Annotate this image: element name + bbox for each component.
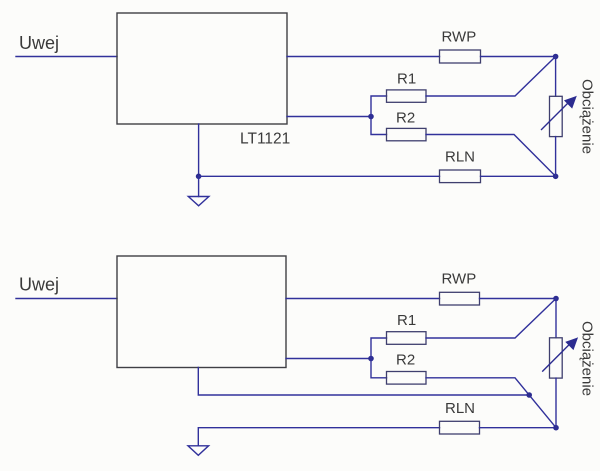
junction node top 2: [553, 296, 559, 302]
junction node R1/R2 2: [368, 356, 374, 362]
IC U1 regulator box: [117, 13, 287, 124]
svg-text:R2: R2: [396, 351, 415, 368]
wire ground rail 2: [198, 428, 439, 446]
resistor R1: [387, 90, 427, 102]
junction node bottom 2: [553, 425, 559, 431]
junction node ground rail: [196, 174, 202, 180]
wire load to bottom node: [555, 137, 557, 177]
wire R1 to top node: [426, 57, 556, 97]
wire U2 sense pin to R1/R2 node 2: [286, 358, 371, 360]
resistor load (Obciazenie): [550, 96, 563, 136]
svg-text:RWP: RWP: [442, 271, 477, 288]
wire U1 ground pin down: [198, 124, 200, 176]
svg-text:Uwej: Uwej: [19, 33, 59, 53]
resistor RLN2: [440, 421, 480, 434]
resistor RLN: [440, 170, 481, 183]
ground: [188, 197, 209, 206]
wire input to regulator: [16, 56, 117, 58]
svg-text:R1: R1: [397, 312, 416, 329]
wire R1/R2 vertical tie 2: [371, 338, 387, 378]
wire R1/R2 vertical tie: [371, 96, 387, 135]
junction node on diagonal 2: [526, 392, 532, 398]
wire load 2 to bottom node 2: [555, 378, 557, 428]
svg-text:RWP: RWP: [442, 29, 477, 46]
arrow variable-load 2: [543, 339, 577, 371]
svg-text:RLN: RLN: [445, 400, 475, 417]
resistor load 2 (Obciazenie): [550, 338, 563, 378]
resistor R2: [387, 128, 427, 140]
wire RLN2 to bottom node 2: [480, 427, 557, 429]
wire U1 output to RWP: [287, 56, 440, 58]
svg-text:R2: R2: [396, 109, 415, 126]
wire R1-2 to top node 2: [426, 299, 556, 339]
svg-text:Obciążenie: Obciążenie: [578, 79, 595, 154]
wire U1 sense pin to R1/R2 node: [287, 116, 371, 118]
wire input to regulator 2: [16, 298, 117, 300]
resistor R2-2: [387, 372, 427, 385]
wire ground rail to RLN: [199, 175, 440, 177]
wire RLN to bottom node: [481, 175, 556, 177]
IC U2 regulator box: [117, 256, 286, 368]
wire R2-2 diagonal to bottom node 2: [426, 378, 556, 428]
svg-text:RLN: RLN: [445, 149, 475, 166]
junction node R1/R2: [368, 114, 374, 120]
junction node top: [553, 54, 559, 60]
svg-text:Obciążenie: Obciążenie: [578, 321, 595, 396]
wire U2 output to RWP2: [286, 298, 440, 300]
wire to ground symbol: [198, 176, 200, 196]
svg-text:R1: R1: [397, 70, 416, 87]
wire RWP2 to top node 2: [480, 298, 557, 300]
wire RWP to top node: [481, 56, 556, 58]
wire U2 ground pin down and right: [198, 368, 529, 396]
resistor RWP: [440, 50, 481, 63]
junction node bottom: [553, 174, 559, 180]
wire top node to load: [555, 57, 557, 97]
wire top node 2 to load 2: [555, 299, 557, 338]
resistor R1-2: [387, 332, 427, 345]
svg-text:Uwej: Uwej: [19, 275, 59, 295]
arrow variable-load: [542, 97, 576, 129]
wire R2 to bottom node: [426, 135, 556, 177]
ground 2: [188, 446, 209, 456]
resistor RWP2: [440, 292, 480, 305]
svg-text:LT1121: LT1121: [240, 130, 290, 147]
